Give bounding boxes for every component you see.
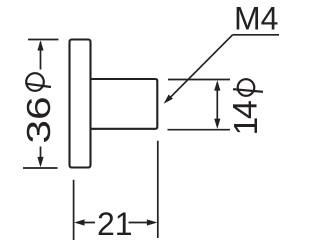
dim 21 dimension line left segment [77,222,96,224]
dim 14phi bottom extension line [168,129,231,131]
label 36 phi symbol (rotated glyph: circle + slash) [26,73,51,91]
dim 36phi vertical dimension line upper segment [40,42,42,70]
flange (disc, side view) [70,40,91,168]
dim 21 left extension line [73,180,75,240]
M4 leader underline [233,34,279,36]
dim 36phi bottom extension line [23,167,58,169]
dim 21 dimension line right segment [129,222,156,224]
arrowhead 14phi down [214,119,220,129]
arrowhead 14phi up [214,80,220,90]
arrowhead 21 left [74,219,84,225]
dim 36phi vertical dimension line lower segment [40,147,42,166]
arrowhead 21 right [147,219,157,225]
M4 leader diagonal line [167,35,233,101]
dim 21 right extension line [157,141,159,238]
arrowhead 36phi down [37,157,43,167]
svg-text:21: 21 [97,206,133,242]
arrowhead 36phi up [37,40,43,50]
dim 14phi vertical dimension line [216,83,218,126]
svg-text:4: 4 [227,100,265,119]
dim 36phi top extension line [28,39,59,41]
svg-text:36: 36 [20,96,57,143]
label 14 phi symbol (rotated glyph: circle + slash) [233,79,263,96]
stem (cylinder, side view) [91,79,158,129]
arrowhead M4 leader [164,95,173,104]
svg-text:M4: M4 [234,1,278,37]
dim 14phi top extension line [168,79,230,81]
